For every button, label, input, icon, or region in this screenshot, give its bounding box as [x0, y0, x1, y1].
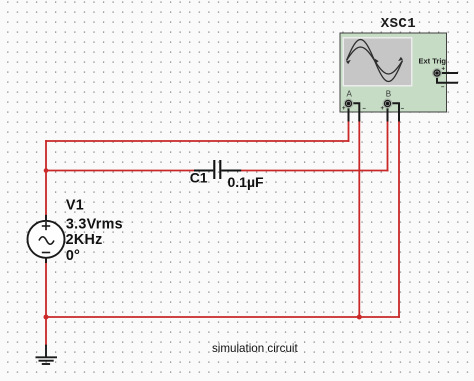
- svg-text:+: +: [342, 106, 346, 112]
- svg-text:B: B: [386, 89, 391, 98]
- svg-text:XSC1: XSC1: [381, 16, 416, 32]
- svg-text:+: +: [442, 67, 446, 73]
- svg-text:V1: V1: [66, 198, 84, 214]
- svg-text:Ext Trig: Ext Trig: [419, 57, 447, 66]
- svg-text:0°: 0°: [66, 248, 80, 264]
- svg-text:3.3Vrms: 3.3Vrms: [66, 216, 123, 232]
- svg-text:C1: C1: [190, 169, 208, 185]
- svg-text:simulation circuit: simulation circuit: [212, 342, 298, 355]
- svg-text:A: A: [347, 89, 353, 98]
- svg-text:+: +: [381, 106, 385, 112]
- svg-text:0.1µF: 0.1µF: [228, 174, 265, 190]
- svg-text:2KHz: 2KHz: [66, 232, 103, 248]
